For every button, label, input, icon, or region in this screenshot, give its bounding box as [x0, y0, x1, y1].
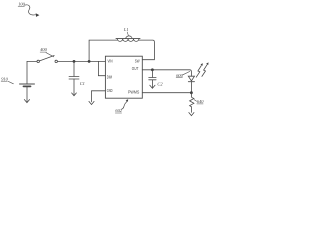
node junction LED/resistor/PWMD	[190, 91, 193, 94]
wire PWMD net	[142, 92, 191, 94]
svg-text:GND: GND	[107, 88, 113, 93]
svg-text:910: 910	[1, 76, 8, 81]
wire inductor to SW riser	[139, 40, 154, 60]
leader line for 640	[194, 100, 197, 102]
op-amp / driver IC U1 (602) body	[105, 56, 142, 98]
ground (resistor)	[189, 113, 194, 116]
svg-text:VIN: VIN	[108, 59, 113, 64]
switch SW1 right terminal	[55, 60, 57, 62]
C1 value label	[80, 81, 85, 86]
capacitor C2	[151, 70, 153, 78]
wire VIN rail	[58, 60, 106, 62]
svg-text:640: 640	[197, 99, 204, 104]
node junction OUT/C2	[151, 68, 154, 71]
battery reference label 910	[1, 76, 8, 81]
resistor reference label 640	[197, 99, 204, 104]
battery B1	[20, 83, 35, 85]
switch SW1 left terminal	[37, 60, 39, 62]
svg-text:600: 600	[176, 73, 183, 78]
pin label SW	[135, 59, 140, 64]
switch 400 reference label	[40, 47, 47, 52]
pin label PWMD	[128, 90, 139, 95]
svg-text:SW: SW	[135, 59, 140, 64]
ground (battery)	[24, 100, 29, 103]
wire riser to inductor	[89, 40, 117, 61]
capacitor C1	[73, 61, 75, 76]
LED emission arrow 2	[202, 65, 207, 77]
svg-text:C2: C2	[157, 81, 163, 86]
ground (C1)	[72, 93, 77, 96]
wire GND pin to ground	[92, 91, 106, 102]
ground (C2)	[150, 85, 155, 88]
pin label GND	[107, 88, 113, 93]
pin label DIM	[107, 74, 112, 79]
node junction inductor tap	[88, 60, 91, 63]
svg-text:OUT: OUT	[132, 66, 139, 71]
squiggly leader arrow for 602	[121, 101, 127, 109]
svg-text:DIM: DIM	[107, 74, 112, 79]
switch SW1 blade	[40, 56, 55, 61]
pin label OUT	[132, 66, 139, 71]
figure reference label 100	[18, 1, 25, 6]
IC reference label 602	[115, 108, 122, 113]
LED D1 (600) triangle	[188, 76, 194, 81]
ground (IC GND)	[89, 101, 94, 104]
wire OUT net	[142, 70, 191, 76]
leader line for 400	[46, 53, 54, 57]
LED reference label 600	[176, 73, 183, 78]
leader line for 600	[183, 71, 190, 74]
LED cathode bar	[188, 81, 194, 83]
svg-text:100: 100	[18, 1, 25, 6]
svg-text:L1: L1	[123, 27, 129, 32]
wire battery bottom to ground	[26, 87, 28, 102]
LED emission arrow 1	[196, 66, 201, 78]
wire battery top to rail	[27, 61, 37, 84]
squiggly leader arrow for 100	[25, 5, 36, 15]
svg-text:C1: C1	[80, 81, 85, 86]
resistor R1 (640)	[190, 93, 194, 113]
C2 value label	[157, 81, 163, 86]
pin label VIN	[108, 59, 113, 64]
inductor L1	[116, 38, 140, 40]
wire DIM tie to VIN rail	[98, 61, 105, 75]
svg-text:PWMS: PWMS	[128, 90, 139, 95]
wire LED cathode to junction	[190, 82, 192, 93]
L1 label	[123, 27, 129, 32]
leader line for L1	[127, 32, 128, 36]
leader line for 910	[8, 81, 13, 83]
svg-text:400: 400	[40, 47, 47, 52]
node junction C1 tap	[73, 60, 76, 63]
